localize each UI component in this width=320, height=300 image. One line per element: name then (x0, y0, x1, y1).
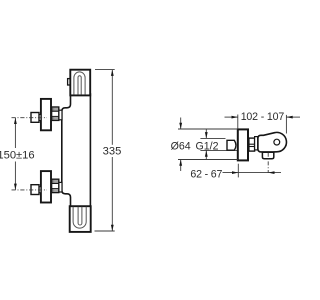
Ø64 dim line top (178, 128, 238, 130)
top handle U-slot inner (78, 76, 81, 95)
bottom handle U-slot inner (78, 207, 82, 225)
mixer body bar (62, 94, 91, 207)
bottom cap knurl band lower (53, 189, 59, 192)
dim 102-107 extension right (285, 115, 287, 134)
dim 62-67 arrow right (268, 171, 274, 174)
bottom disc-nut connector (39, 187, 41, 193)
bottom handle disc (41, 171, 51, 202)
svg-text:G1/2: G1/2 (196, 141, 219, 153)
cartridge nut (249, 138, 255, 151)
bottom valve knurled cap (52, 179, 59, 192)
cartridge nut grooves (249, 143, 255, 145)
top handle block (70, 70, 90, 96)
dim 150±16 arrow up (14, 118, 17, 124)
valve body housing merged with hub circle (258, 132, 287, 151)
bottom knob centerline (12, 189, 48, 191)
dim 335 arrow up (111, 70, 114, 76)
wall flange (238, 129, 248, 160)
top handle disc (41, 99, 51, 130)
dim 335 extension bottom (95, 230, 115, 232)
G1/2 dim line top (200, 137, 225, 139)
bottom handle U-slot outer (73, 207, 86, 228)
dim 150±16 arrow down (14, 184, 17, 190)
svg-text:62 - 67: 62 - 67 (190, 169, 222, 181)
dim 62-67 extension left (237, 164, 239, 178)
svg-text:Ø64: Ø64 (171, 140, 191, 152)
svg-text:150±16: 150±16 (0, 150, 35, 162)
handle hub inner circle (274, 139, 280, 145)
dim 335 line upper (111, 70, 113, 145)
top valve neck (59, 110, 62, 120)
top union nut (31, 113, 39, 123)
top disc-nut connector (39, 115, 41, 121)
dim 102-107 line right w/arrow (286, 116, 300, 118)
top cap groove lines (52, 110, 59, 112)
dim 102-107 extension left (237, 115, 239, 129)
bottom union nut (31, 185, 39, 195)
dim 335 extension top (95, 69, 115, 71)
bottom cap groove lines (52, 182, 59, 184)
svg-text:335: 335 (103, 145, 122, 157)
wall clip tab on top handle (68, 79, 71, 85)
top knob centerline (12, 117, 48, 119)
Ø64 dim line bottom (178, 159, 238, 161)
bottom valve neck (59, 182, 62, 192)
top handle U-slot outer (74, 72, 85, 95)
dim 62-67 arrow left (232, 171, 238, 174)
outlet centerline (267, 153, 269, 173)
bottom cap knurl band upper (53, 180, 59, 183)
G1/2 dim line bottom (200, 149, 237, 151)
valve collar (255, 137, 258, 150)
Ø64 arrow upper (180, 118, 182, 130)
G1/2 arrow upper (205, 129, 207, 139)
dim 335 line lower (111, 157, 113, 231)
svg-text:102 - 107: 102 - 107 (241, 111, 285, 123)
Ø64 arrow lower (180, 160, 182, 172)
dim 150±16 line upper (14, 118, 16, 148)
inlet pipe stub (227, 140, 236, 150)
top valve knurled cap (52, 107, 59, 120)
dim 102-107 line left w/arrow (225, 116, 238, 118)
outlet port (262, 152, 273, 159)
G1/2 arrow lower (205, 150, 207, 159)
top cap knurl band lower (53, 117, 59, 120)
bottom handle block (70, 206, 91, 232)
dim 150±16 line lower (14, 162, 16, 190)
dim 62-67 line (223, 172, 282, 174)
dim 335 arrow down (111, 225, 114, 231)
top cap knurl band upper (53, 108, 59, 111)
